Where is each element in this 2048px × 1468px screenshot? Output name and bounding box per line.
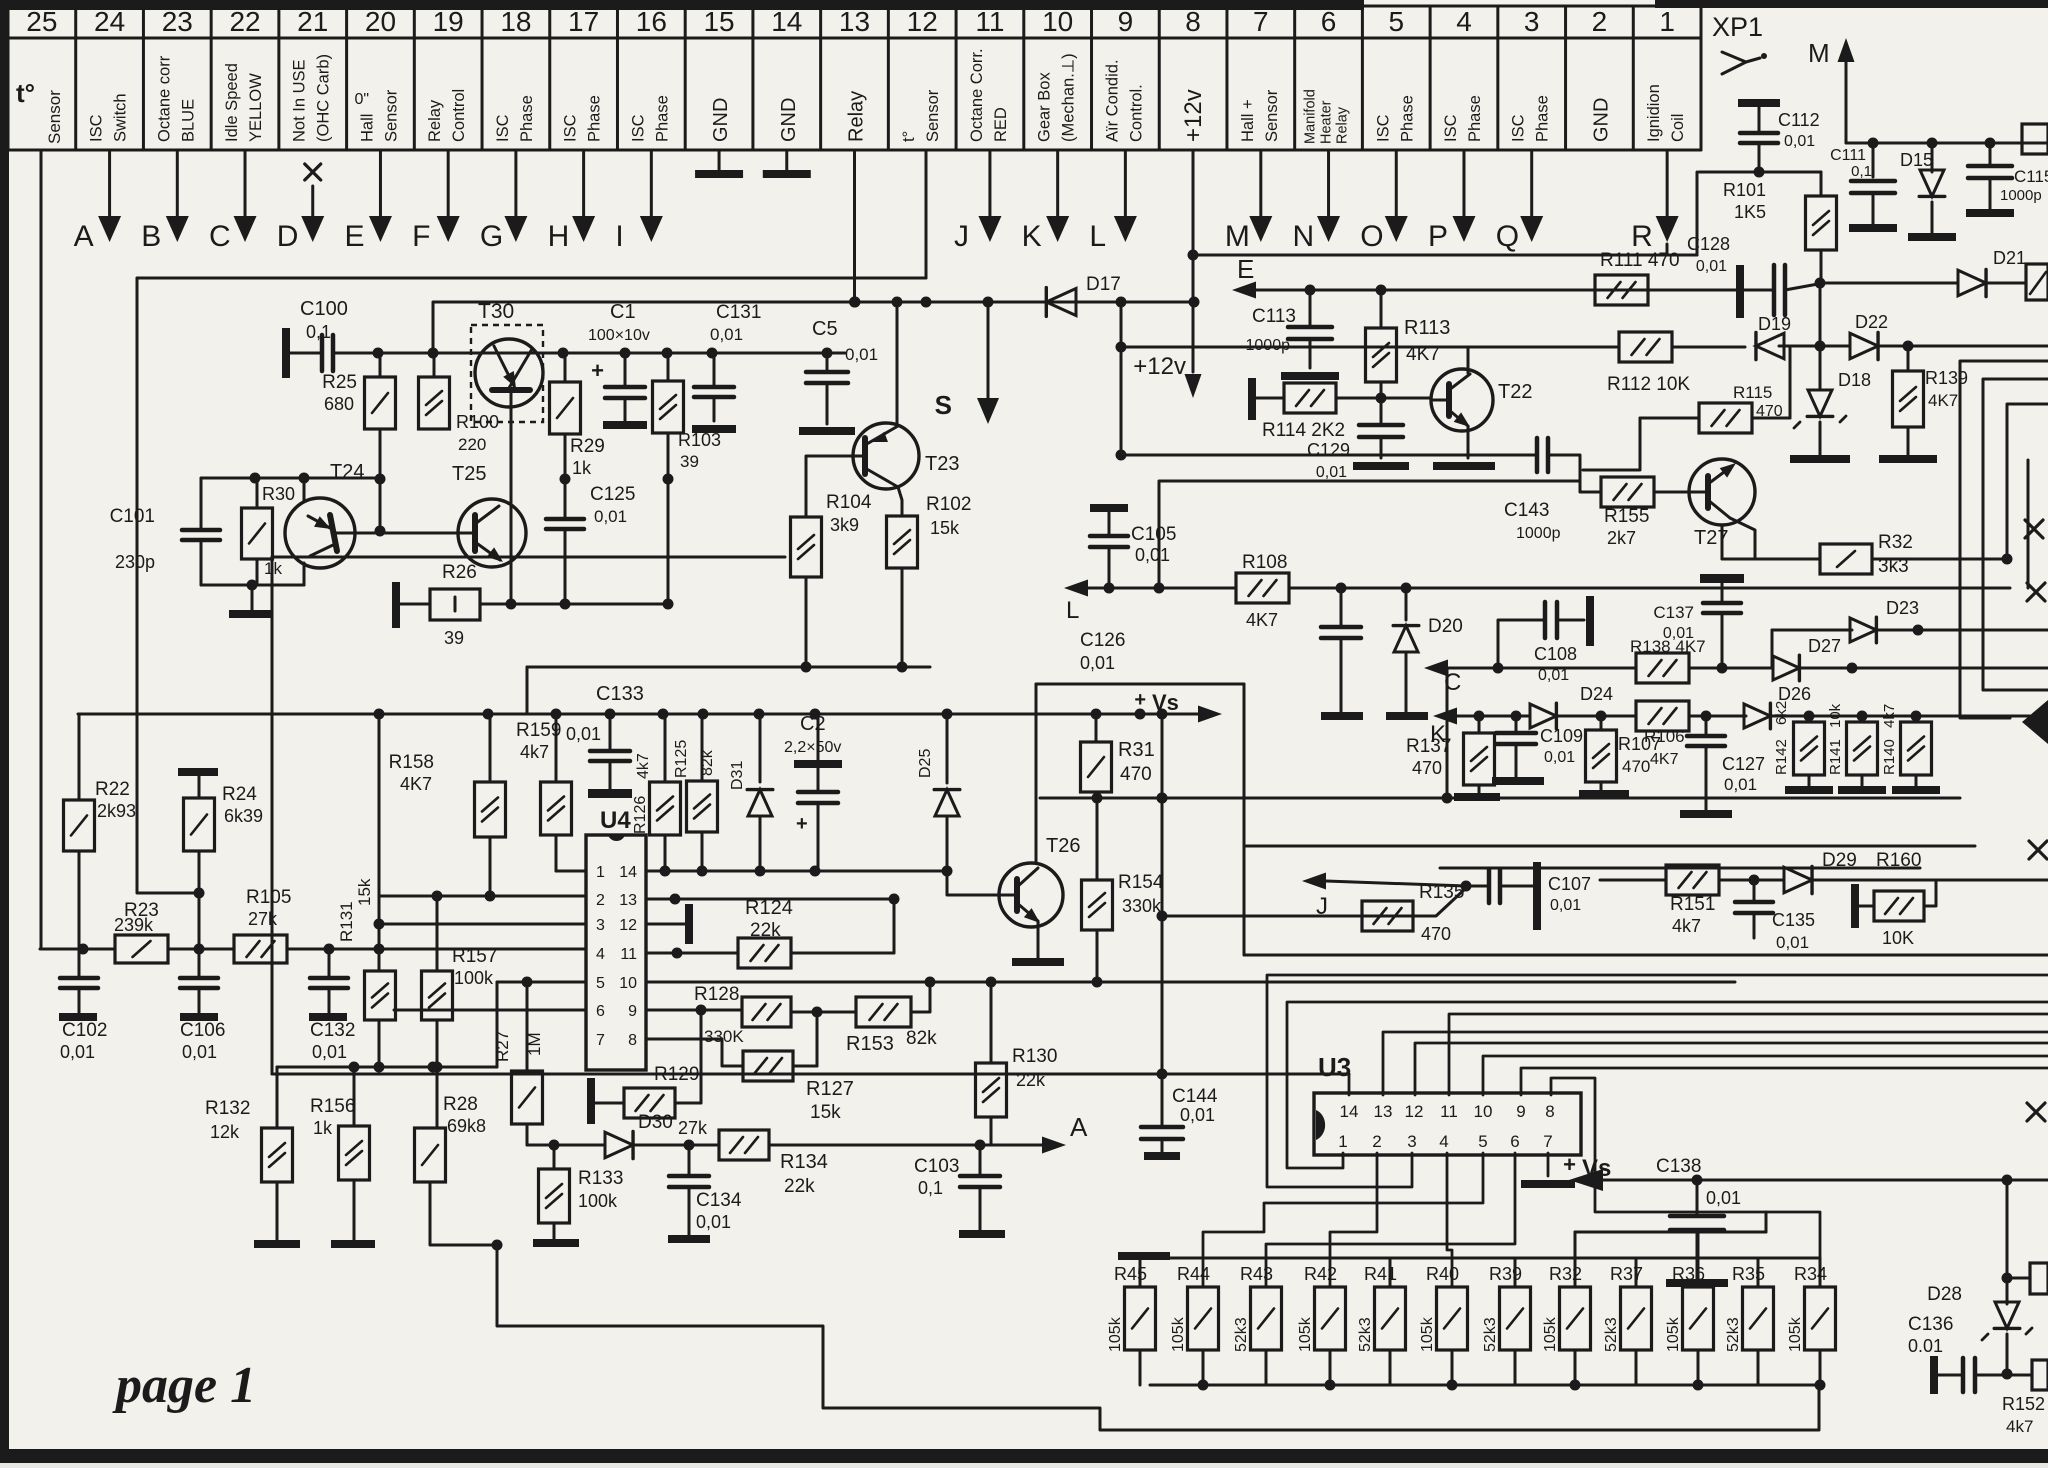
wire J row lower xyxy=(1162,888,1466,916)
svg-text:2: 2 xyxy=(596,892,605,909)
svg-text:H: H xyxy=(548,220,570,253)
svg-text:C108: C108 xyxy=(1534,644,1577,664)
svg-text:T26: T26 xyxy=(1046,835,1080,857)
resistor R104 3k9 xyxy=(806,456,853,517)
svg-text:12: 12 xyxy=(907,6,938,37)
wire U3 pin4 to R40 xyxy=(1447,1153,1452,1287)
transistor T27 xyxy=(1689,459,1755,525)
x mark right edge 1 xyxy=(2025,520,2043,538)
svg-text:(OHC Carb): (OHC Carb) xyxy=(315,54,333,142)
svg-text:Phase: Phase xyxy=(653,95,671,142)
wire U3 pin12 up right xyxy=(1415,1043,2048,1095)
resistor R45 105k xyxy=(1139,1259,1142,1287)
wire rail y846 xyxy=(1244,845,1975,848)
svg-text:7: 7 xyxy=(596,1032,605,1049)
wire pin2 xyxy=(380,895,586,898)
diode D17 xyxy=(1046,289,1076,316)
resistor R160 10K xyxy=(1851,884,1859,928)
wire U3 pin2 to R42 xyxy=(1330,1153,1377,1287)
svg-text:12: 12 xyxy=(619,917,637,934)
diode D27 xyxy=(1773,656,1799,680)
node A arrow xyxy=(980,1144,1042,1147)
diode D21 xyxy=(1958,270,1986,296)
svg-text:G: G xyxy=(480,220,503,253)
svg-text:Vs: Vs xyxy=(1152,690,1179,715)
svg-text:R115: R115 xyxy=(1733,383,1772,402)
wire pin14 to T26 base xyxy=(947,871,999,895)
svg-text:C100: C100 xyxy=(300,298,348,320)
resistor R128 330K xyxy=(646,1009,742,1012)
diode D15 xyxy=(1931,143,1934,172)
node Q arrow from pin 3 xyxy=(1530,150,1533,218)
svg-text:C132: C132 xyxy=(310,1020,355,1041)
wire pin4 main rail xyxy=(40,948,83,951)
svg-text:15: 15 xyxy=(703,6,734,37)
wire pin13 xyxy=(646,898,894,901)
svg-text:D25: D25 xyxy=(917,749,934,778)
svg-text:15k: 15k xyxy=(810,1102,841,1123)
capacitor C138 xyxy=(1696,1180,1699,1214)
svg-text:R138 4K7: R138 4K7 xyxy=(1630,637,1706,656)
svg-text:R104: R104 xyxy=(826,492,872,513)
svg-text:M: M xyxy=(1225,220,1250,253)
resistor partial at right edge top xyxy=(2022,124,2048,154)
wire right bus y868 xyxy=(1440,867,1920,870)
svg-text:GND: GND xyxy=(710,98,732,142)
svg-text:T24: T24 xyxy=(330,461,364,483)
svg-text:105k: 105k xyxy=(1665,1316,1682,1352)
node A arrow from pin 24 xyxy=(108,150,111,218)
svg-text:R153: R153 xyxy=(846,1033,894,1055)
svg-text:D17: D17 xyxy=(1086,274,1121,295)
svg-text:239k: 239k xyxy=(114,915,154,935)
svg-text:R142: R142 xyxy=(1773,739,1790,775)
resistor R126 4k7 xyxy=(664,714,667,782)
svg-text:4k7: 4k7 xyxy=(2006,1417,2033,1436)
wire R104 R102 bottoms xyxy=(805,577,808,667)
wire C line drop x1447 xyxy=(1446,668,1449,798)
wire pin1 xyxy=(556,870,586,873)
svg-text:0,1: 0,1 xyxy=(306,322,331,342)
svg-text:14: 14 xyxy=(1340,1102,1359,1121)
svg-text:680: 680 xyxy=(324,394,354,414)
svg-text:105k: 105k xyxy=(1170,1316,1187,1352)
wire R28 bottom to staircase xyxy=(430,1182,497,1245)
svg-text:Phase: Phase xyxy=(1398,95,1416,142)
svg-text:P: P xyxy=(1428,220,1448,253)
svg-text:Sensor: Sensor xyxy=(45,90,64,144)
wire T27 collector loop xyxy=(1583,418,1640,470)
wire T23 collector xyxy=(896,302,899,426)
resistor R32 105k xyxy=(1574,1232,1577,1287)
resistor R153 82k xyxy=(856,997,911,1027)
svg-text:R124: R124 xyxy=(745,897,793,919)
wire pin12 terminal xyxy=(646,923,685,926)
svg-text:10: 10 xyxy=(1474,1102,1493,1121)
svg-text:0,01: 0,01 xyxy=(1135,545,1170,565)
svg-text:R111 470: R111 470 xyxy=(1600,250,1680,271)
svg-text:C: C xyxy=(209,220,231,253)
svg-text:Relay: Relay xyxy=(846,91,868,142)
wire R101 node down xyxy=(1819,283,1822,346)
diode D22 xyxy=(1850,333,1878,359)
svg-text:0,01: 0,01 xyxy=(845,345,878,364)
svg-text:13: 13 xyxy=(1374,1102,1393,1121)
svg-text:52k3: 52k3 xyxy=(1233,1317,1250,1352)
svg-text:XP1: XP1 xyxy=(1712,12,1763,42)
svg-text:23: 23 xyxy=(162,6,193,37)
capacitor C108 xyxy=(1498,620,1545,668)
wire R22 bottom xyxy=(78,851,81,949)
IC U4 xyxy=(586,835,646,1070)
wire right nested loop 1 xyxy=(1960,361,2048,718)
wire y1067 rail xyxy=(277,1066,497,1069)
svg-text:Phase: Phase xyxy=(586,95,604,142)
wire bus end to arrow xyxy=(1140,713,1198,716)
svg-text:2k93: 2k93 xyxy=(97,801,136,821)
svg-text:19: 19 xyxy=(433,6,464,37)
svg-text:14: 14 xyxy=(771,6,802,37)
svg-text:2: 2 xyxy=(1592,6,1608,37)
diode D31 xyxy=(759,714,762,782)
svg-text:D20: D20 xyxy=(1428,616,1463,637)
capacitor C109 xyxy=(1515,716,1518,731)
svg-text:Control: Control xyxy=(450,89,468,142)
svg-text:105k: 105k xyxy=(1542,1316,1559,1352)
svg-text:C101: C101 xyxy=(110,506,155,527)
svg-text:A: A xyxy=(74,220,94,253)
svg-text:27k: 27k xyxy=(678,1118,708,1138)
svg-text:T30: T30 xyxy=(478,300,514,323)
svg-text:Not In USE: Not In USE xyxy=(291,59,309,142)
svg-text:R131: R131 xyxy=(337,901,356,942)
svg-text:C127: C127 xyxy=(1722,754,1765,774)
svg-text:R29: R29 xyxy=(570,436,605,457)
node G arrow from pin 18 xyxy=(514,150,517,218)
node J arrow from pin 11 xyxy=(988,150,991,218)
resistor R40 105k xyxy=(1451,1286,1454,1289)
svg-text:52k3: 52k3 xyxy=(1357,1317,1374,1352)
wire R26 rail xyxy=(511,603,668,606)
svg-text:24: 24 xyxy=(94,6,125,37)
svg-text:11: 11 xyxy=(975,6,1004,37)
svg-text:21: 21 xyxy=(297,6,328,37)
capacitor C144 xyxy=(271,557,274,1074)
svg-text:R32: R32 xyxy=(1878,532,1913,553)
transistor T22 xyxy=(1431,369,1493,431)
svg-text:+12v: +12v xyxy=(1180,89,1207,142)
resistor R137 470 xyxy=(1478,716,1481,733)
resistor R112 10K xyxy=(1619,332,1672,362)
svg-text:ISC: ISC xyxy=(494,114,512,142)
wire pin 12 down to bus xyxy=(925,150,928,278)
svg-text:17: 17 xyxy=(568,6,599,37)
wire T30 emitter down xyxy=(510,390,513,604)
svg-text:T23: T23 xyxy=(925,453,959,475)
capacitor C115 xyxy=(1989,143,1992,164)
svg-text:R127: R127 xyxy=(806,1078,854,1100)
svg-text:A: A xyxy=(1070,1112,1088,1142)
svg-text:ISC: ISC xyxy=(88,114,106,142)
wire U3 pin14 to C144 bus xyxy=(1348,1074,1351,1095)
svg-text:Relay: Relay xyxy=(1335,106,1351,144)
x mark right edge 4 xyxy=(2027,1103,2045,1121)
svg-text:C144: C144 xyxy=(1172,1086,1218,1107)
svg-text:R34: R34 xyxy=(1794,1264,1827,1284)
svg-text:J: J xyxy=(954,220,969,253)
svg-text:1000p: 1000p xyxy=(1516,525,1561,542)
wire R25 bottom to base wire xyxy=(379,429,382,531)
svg-text:D15: D15 xyxy=(1900,150,1933,170)
svg-text:0,01: 0,01 xyxy=(1550,897,1581,914)
resistor R114 2K2 xyxy=(1248,378,1256,420)
svg-text:+: + xyxy=(796,813,808,835)
wire U3 pin1 left loop xyxy=(1287,1002,2048,1168)
diode D26 xyxy=(1744,704,1770,728)
svg-text:1: 1 xyxy=(1659,6,1675,37)
svg-text:R39: R39 xyxy=(1489,1264,1522,1284)
capacitor C143 xyxy=(1121,454,1537,457)
svg-text:R141: R141 xyxy=(1827,739,1844,775)
svg-text:BLUE: BLUE xyxy=(179,99,197,142)
svg-text:R105: R105 xyxy=(246,887,291,908)
svg-text:0,01: 0,01 xyxy=(710,325,743,344)
resistor R132 12k xyxy=(276,1067,279,1128)
resistor R152 4k7 partial xyxy=(2007,1374,2032,1377)
svg-text:105k: 105k xyxy=(1107,1316,1124,1352)
diode D23 xyxy=(1772,629,1852,632)
resistor R43 52k3 xyxy=(1265,1286,1268,1289)
svg-text:Phase: Phase xyxy=(518,95,536,142)
node E arrow from pin 20 xyxy=(379,150,382,218)
x mark right edge 2 xyxy=(2027,583,2045,601)
IC U3 xyxy=(1314,1093,1581,1155)
svg-text:+: + xyxy=(1563,1152,1576,1177)
svg-text:3: 3 xyxy=(596,917,605,934)
svg-text:R139: R139 xyxy=(1925,368,1968,388)
svg-text:470: 470 xyxy=(1421,924,1451,944)
svg-text:ISC: ISC xyxy=(1510,114,1528,142)
diode D19 xyxy=(1756,333,1784,359)
capacitor C103 xyxy=(979,1145,982,1174)
svg-text:D18: D18 xyxy=(1838,370,1871,390)
svg-text:R158: R158 xyxy=(389,752,434,773)
svg-text:Q: Q xyxy=(1496,220,1519,253)
svg-text:R128: R128 xyxy=(694,984,739,1005)
svg-text:4K7: 4K7 xyxy=(1246,610,1278,630)
wire U3 pin10 up right xyxy=(1483,1056,2048,1095)
svg-text:R35: R35 xyxy=(1732,1264,1765,1284)
wire ladder bottom bus xyxy=(1150,1384,1820,1387)
wire U3 pin6 to R43 xyxy=(1266,1153,1515,1287)
svg-text:GND: GND xyxy=(1590,98,1612,142)
svg-text:C105: C105 xyxy=(1131,524,1176,545)
wire ladder top bus 1232 xyxy=(1575,1231,1766,1234)
x mark right edge 3 xyxy=(2029,841,2047,859)
capacitor C137 xyxy=(1700,574,1744,583)
svg-text:R101: R101 xyxy=(1723,180,1766,200)
svg-text:470: 470 xyxy=(1622,757,1650,776)
svg-text:5: 5 xyxy=(596,975,605,992)
svg-text:Sensor: Sensor xyxy=(382,89,400,142)
capacitor C107 xyxy=(1466,885,1489,888)
resistor R111 470 xyxy=(1595,275,1648,305)
resistor R134 22k xyxy=(719,1130,769,1160)
svg-text:22k: 22k xyxy=(750,920,781,941)
svg-text:R134: R134 xyxy=(780,1151,828,1173)
svg-text:330K: 330K xyxy=(704,1027,744,1046)
svg-text:D30: D30 xyxy=(638,1112,673,1133)
svg-text:82k: 82k xyxy=(906,1028,937,1049)
node E arrow xyxy=(1232,282,1256,299)
zener D28 xyxy=(1995,1302,2019,1328)
wire T24 emitter ground rail xyxy=(201,584,304,587)
svg-text:0,01: 0,01 xyxy=(1544,749,1575,766)
svg-text:0,01: 0,01 xyxy=(696,1212,731,1232)
svg-text:+: + xyxy=(1134,689,1146,711)
capacitor C100 xyxy=(282,328,290,378)
svg-text:D27: D27 xyxy=(1808,636,1841,656)
svg-text:E: E xyxy=(1237,254,1254,284)
svg-text:25: 25 xyxy=(26,6,57,37)
resistor R29 1k xyxy=(564,353,567,382)
svg-text:D: D xyxy=(277,220,299,253)
resistor R23 239k xyxy=(115,935,168,963)
svg-text:0,01: 0,01 xyxy=(594,507,627,526)
capacitor C112 xyxy=(1738,99,1780,107)
capacitor C113 xyxy=(1309,290,1312,325)
svg-text:100k: 100k xyxy=(454,968,494,988)
svg-text:Octane corr: Octane corr xyxy=(155,55,173,142)
svg-text:C136: C136 xyxy=(1908,1314,1953,1335)
resistor R108 4K7 xyxy=(1236,573,1289,603)
svg-text:C115: C115 xyxy=(2014,167,2048,186)
wire T26 emitter ground xyxy=(1037,922,1040,958)
svg-text:C106: C106 xyxy=(180,1020,225,1041)
node N arrow from pin 6 xyxy=(1327,150,1330,218)
svg-text:4: 4 xyxy=(1439,1132,1448,1151)
capacitor C2 electrolytic xyxy=(817,714,820,760)
svg-text:0,01: 0,01 xyxy=(1784,133,1815,150)
svg-text:R135: R135 xyxy=(1419,882,1464,903)
svg-text:4: 4 xyxy=(1456,6,1472,37)
resistor R35 52k3 xyxy=(1757,1258,1760,1287)
svg-text:M: M xyxy=(1808,38,1830,68)
svg-text:470: 470 xyxy=(1756,403,1783,420)
wire L row corner to R155 xyxy=(1159,481,1580,588)
svg-text:S: S xyxy=(935,390,952,420)
svg-text:C: C xyxy=(1444,669,1461,696)
svg-text:C126: C126 xyxy=(1080,630,1125,651)
svg-text:R44: R44 xyxy=(1177,1264,1210,1284)
svg-text:C131: C131 xyxy=(716,302,761,323)
svg-text:+: + xyxy=(591,358,604,383)
wire U3 pin9 up right xyxy=(1521,1068,2048,1095)
wire y667 bus xyxy=(527,666,930,669)
svg-text:C135: C135 xyxy=(1772,910,1815,930)
svg-text:RED: RED xyxy=(992,107,1010,142)
svg-text:8: 8 xyxy=(1185,6,1201,37)
svg-text:page 1: page 1 xyxy=(112,1357,256,1414)
resistor R155 2k7 xyxy=(1601,477,1654,507)
svg-text:D28: D28 xyxy=(1927,1284,1962,1305)
svg-text:E: E xyxy=(344,220,364,253)
resistor R44 105k xyxy=(1202,1286,1205,1289)
svg-text:12: 12 xyxy=(1405,1102,1424,1121)
svg-text:4K7: 4K7 xyxy=(1928,391,1958,410)
svg-text:330k: 330k xyxy=(1122,896,1162,916)
svg-text:+12v: +12v xyxy=(1133,353,1186,380)
resistor R154 330k xyxy=(1096,798,1099,880)
terminal bar ladder left xyxy=(1118,1252,1170,1260)
svg-text:R37: R37 xyxy=(1610,1264,1643,1284)
svg-text:105k: 105k xyxy=(1787,1316,1804,1352)
svg-text:52k3: 52k3 xyxy=(1725,1317,1742,1352)
svg-text:R107: R107 xyxy=(1618,734,1661,754)
svg-text:R151: R151 xyxy=(1670,894,1715,915)
transistor T24 base feed xyxy=(303,478,306,500)
svg-text:52k3: 52k3 xyxy=(1482,1317,1499,1352)
node L arrow from pin 9 xyxy=(1124,150,1127,218)
svg-text:Idle Speed: Idle Speed xyxy=(223,63,241,142)
svg-text:4: 4 xyxy=(596,946,605,963)
wire right vertical x2007 bottom xyxy=(2006,1180,2009,1304)
svg-text:0,01: 0,01 xyxy=(1776,933,1809,952)
node C arrow xyxy=(1424,660,1448,677)
resistor R133 100k xyxy=(553,1145,556,1169)
svg-text:Switch: Switch xyxy=(112,93,130,142)
svg-text:6: 6 xyxy=(596,1003,605,1020)
svg-text:5: 5 xyxy=(1478,1132,1487,1151)
resistor R103 39 xyxy=(667,353,670,381)
node +Vs arrow xyxy=(1198,706,1222,723)
resistor R129 27k xyxy=(587,1078,595,1124)
svg-text:L: L xyxy=(1066,597,1079,624)
resistor R140 4k7 xyxy=(1915,716,1918,722)
svg-text:9: 9 xyxy=(628,1003,637,1020)
node T22 base xyxy=(1376,393,1387,404)
wire main y353 bus xyxy=(333,352,845,355)
wire base bus y478 xyxy=(201,477,380,480)
capacitor C131 xyxy=(713,353,716,385)
svg-text:R154: R154 xyxy=(1118,872,1164,893)
svg-text:Aïr Condid.: Aïr Condid. xyxy=(1103,59,1121,142)
svg-text:R41: R41 xyxy=(1364,1264,1397,1284)
svg-text:R114 2K2: R114 2K2 xyxy=(1262,420,1345,441)
svg-text:39: 39 xyxy=(680,452,699,471)
blob arrow right edge xyxy=(2022,700,2048,744)
svg-text:4K7: 4K7 xyxy=(400,774,432,794)
svg-text:14: 14 xyxy=(619,864,637,881)
transistor T26 xyxy=(999,863,1063,927)
svg-text:0,01: 0,01 xyxy=(1706,1188,1741,1208)
svg-text:T25: T25 xyxy=(452,463,486,485)
svg-text:100×10v: 100×10v xyxy=(588,327,650,344)
svg-text:2,2×50v: 2,2×50v xyxy=(784,739,841,756)
svg-text:0,01: 0,01 xyxy=(1724,775,1757,794)
transistor T30 dashed box xyxy=(471,325,543,422)
svg-text:9: 9 xyxy=(1118,6,1134,37)
svg-text:18: 18 xyxy=(500,6,531,37)
resistor R26 39 xyxy=(392,582,400,628)
resistor R124 22k xyxy=(646,952,738,955)
svg-text:Control.: Control. xyxy=(1127,84,1145,142)
wire ladder top bus 1258 xyxy=(1144,1257,1820,1260)
node O arrow from pin 5 xyxy=(1395,150,1398,218)
capacitor C135 xyxy=(1749,875,1760,886)
svg-text:C103: C103 xyxy=(914,1156,959,1177)
wire E bus xyxy=(1256,289,1737,292)
